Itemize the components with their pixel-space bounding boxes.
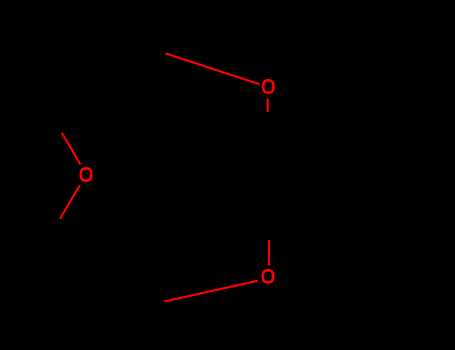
atom O2 (left oxygen label) bbox=[81, 168, 91, 180]
bond O1-C(ring), red half, vertical bbox=[267, 99, 269, 112]
bond CH2-O2, red half, upper-left diagonal bbox=[62, 133, 81, 165]
atom O1 (top oxygen label) bbox=[263, 80, 273, 92]
atom O3 (bottom oxygen label) bbox=[263, 270, 273, 282]
bond C(ring)-O3, red half, vertical bbox=[268, 240, 270, 266]
bond O2-CH2, red half, lower-left diagonal bbox=[60, 185, 80, 219]
bond CH2-O1 (top diagonal) bbox=[166, 53, 260, 84]
bond O3-CH2, red half, bottom diagonal bbox=[164, 281, 258, 302]
